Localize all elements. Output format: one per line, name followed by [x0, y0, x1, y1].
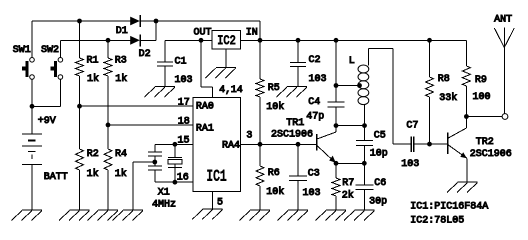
svg-text:C4: C4	[308, 97, 320, 108]
svg-text:R4: R4	[115, 149, 127, 160]
svg-text:14: 14	[231, 85, 243, 96]
svg-text:RA1: RA1	[196, 123, 214, 134]
svg-text:1k: 1k	[87, 168, 99, 180]
svg-text:ANT: ANT	[494, 14, 512, 25]
svg-text:C1: C1	[175, 56, 187, 67]
svg-text:OUT: OUT	[194, 28, 212, 39]
svg-text:17: 17	[178, 98, 190, 109]
svg-text:TR1: TR1	[286, 118, 304, 129]
svg-text:33k: 33k	[439, 92, 457, 104]
svg-text:R6: R6	[268, 168, 280, 179]
svg-text:R1: R1	[87, 56, 99, 67]
svg-text:C3: C3	[308, 169, 320, 180]
svg-text:30p: 30p	[369, 196, 387, 207]
svg-text:15: 15	[178, 135, 190, 146]
svg-text:R5: R5	[268, 83, 280, 94]
svg-text:R8: R8	[438, 74, 450, 85]
svg-text:RA4: RA4	[222, 141, 240, 152]
svg-text:47p: 47p	[306, 112, 324, 123]
svg-text:1k: 1k	[87, 73, 99, 85]
svg-text:IC1:PIC16F84A: IC1:PIC16F84A	[410, 201, 488, 212]
svg-text:103: 103	[309, 74, 327, 85]
svg-text:103: 103	[175, 75, 193, 86]
svg-text:103: 103	[303, 188, 321, 199]
svg-text:1k: 1k	[115, 168, 127, 180]
svg-text:103: 103	[401, 159, 419, 170]
svg-text:IC2: IC2	[217, 33, 236, 48]
svg-text:4MHz: 4MHz	[152, 200, 176, 211]
svg-text:C6: C6	[374, 178, 386, 189]
svg-text:X1: X1	[158, 187, 170, 198]
svg-text:IC1: IC1	[206, 168, 226, 186]
svg-text:R9: R9	[475, 75, 487, 86]
svg-text:D1: D1	[116, 26, 128, 37]
svg-text:C7: C7	[406, 120, 418, 131]
svg-text:2k: 2k	[342, 190, 354, 202]
svg-text:+9V: +9V	[38, 116, 56, 127]
svg-text:5: 5	[217, 198, 223, 209]
svg-text:R3: R3	[115, 56, 127, 67]
svg-text:2SC1906: 2SC1906	[470, 149, 512, 160]
svg-text:10k: 10k	[266, 186, 284, 198]
svg-text:3: 3	[246, 130, 252, 141]
svg-text:IN: IN	[246, 28, 258, 39]
svg-text:100: 100	[473, 92, 491, 103]
svg-text:16: 16	[177, 173, 189, 184]
svg-text:IC2:78L05: IC2:78L05	[410, 216, 464, 227]
svg-text:BATT: BATT	[44, 172, 68, 183]
svg-text:4,: 4,	[219, 85, 231, 96]
svg-text:10k: 10k	[266, 101, 284, 113]
svg-text:18: 18	[178, 116, 190, 127]
svg-text:2SC1906: 2SC1906	[271, 129, 313, 140]
svg-text:L: L	[349, 56, 355, 67]
svg-text:1k: 1k	[115, 73, 127, 85]
svg-text:C2: C2	[309, 55, 321, 66]
svg-text:RA0: RA0	[196, 101, 214, 112]
svg-text:C5: C5	[374, 130, 386, 141]
svg-text:R2: R2	[87, 149, 99, 160]
svg-text:D2: D2	[139, 49, 151, 60]
svg-text:TR2: TR2	[476, 137, 494, 148]
svg-text:SW1: SW1	[13, 45, 31, 56]
svg-text:R7: R7	[342, 178, 354, 189]
svg-text:10p: 10p	[370, 148, 388, 159]
svg-text:SW2: SW2	[41, 45, 59, 56]
